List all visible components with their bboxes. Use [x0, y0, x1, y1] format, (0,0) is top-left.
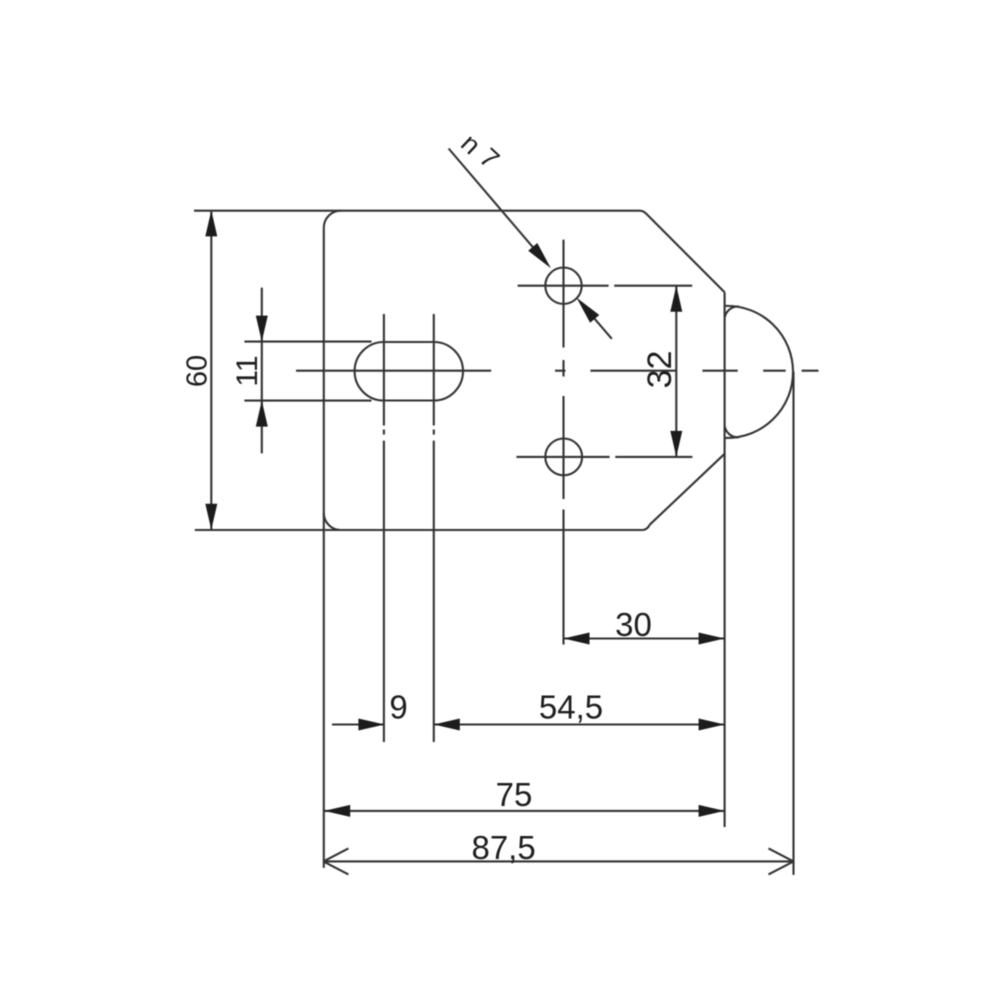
- svg-text:87,5: 87,5: [471, 829, 535, 866]
- svg-text:30: 30: [615, 606, 652, 643]
- svg-text:7: 7: [474, 142, 505, 174]
- svg-text:54,5: 54,5: [539, 689, 603, 726]
- svg-text:9: 9: [389, 689, 407, 726]
- svg-text:32: 32: [641, 351, 679, 389]
- svg-text:75: 75: [496, 776, 533, 813]
- svg-text:60: 60: [182, 355, 214, 387]
- svg-text:11: 11: [231, 355, 264, 386]
